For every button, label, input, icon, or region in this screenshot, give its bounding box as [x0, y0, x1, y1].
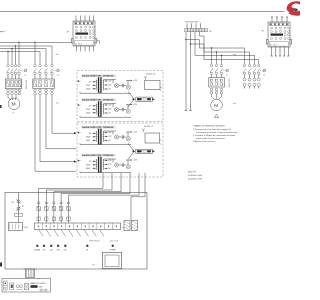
node junction right: [185, 39, 186, 40]
input subcircuit fuse F: [11, 193, 24, 223]
coil C2: [54, 70, 57, 72]
svg-text:SALIDA TRAFO TRF - TRF400/24: SALIDA TRAFO TRF - TRF400/24: [82, 126, 114, 129]
fuse block: [124, 221, 138, 231]
legend strip: [2, 279, 51, 293]
wires to motor M2: [212, 94, 222, 99]
contacts pair 2 group CB: [245, 75, 259, 78]
svg-text:230V: 230V: [86, 85, 91, 87]
svg-text:230V: 230V: [86, 137, 91, 139]
svg-text:M: M: [214, 103, 218, 108]
transformer row TRF3: [77, 126, 138, 145]
arrow into box2 row2: [74, 160, 77, 162]
svg-text:C2: C2: [57, 75, 59, 77]
svg-text:segun indica la placa de borne: segun indica la placa de bornes.: [196, 137, 226, 140]
svg-text:+: +: [121, 82, 122, 84]
wire drops group A: [212, 48, 222, 64]
display rect box2: [145, 133, 160, 143]
scan mark left edge: [0, 105, 2, 108]
svg-text:REG1: REG1: [24, 227, 29, 229]
scan mark left edge low: [0, 263, 2, 267]
wires to overload relay group2: [35, 75, 52, 79]
svg-text:230V: 230V: [86, 165, 91, 167]
wires to motor M1: [8, 95, 16, 100]
wires down from terminal strip: [186, 32, 191, 111]
arrow into box2 row1: [74, 132, 77, 134]
label MOTOR block: [188, 172, 202, 181]
connector arrows box: [128, 143, 155, 159]
svg-text:2.Consultar el bloque de conex: 2.Consultar el bloque de conexiones del …: [193, 134, 236, 137]
wires trafo outputs to control board: [39, 173, 139, 223]
wire group2 drop: [34, 42, 36, 64]
wire feed row2b to trafo box2: [35, 95, 76, 171]
svg-text:M: M: [12, 102, 16, 107]
connector arrows box: [128, 92, 155, 108]
contacts below relay F1: [7, 89, 21, 95]
wire stub CB1 right tab: [97, 41, 100, 44]
svg-text:SALIDA TRAFO TRF - TRF400/24: SALIDA TRAFO TRF - TRF400/24: [82, 99, 114, 102]
terminal strip: [185, 29, 213, 34]
svg-text:OFF: OFF: [57, 250, 60, 252]
transformer row TRF1: [77, 74, 138, 93]
svg-text:1.Desconectar el enchufe de la: 1.Desconectar el enchufe de la regleta d…: [193, 128, 232, 131]
svg-text:mm²: mm²: [233, 53, 237, 56]
svg-text:+: +: [121, 161, 122, 163]
svg-text:3.Ajustar el rele termico.: 3.Ajustar el rele termico.: [193, 140, 216, 143]
wire right bus B: [191, 44, 250, 64]
contactor C2 poles: [34, 64, 54, 74]
svg-text:+: +: [121, 133, 122, 135]
wire right bus D: [200, 36, 259, 64]
wire right bus C: [195, 40, 255, 64]
svg-text:F1: F1: [22, 206, 24, 208]
svg-text:mm²: mm²: [56, 102, 60, 105]
connector block CB1: [67, 16, 97, 52]
logo S (red) top-right: [287, 1, 300, 15]
svg-text:400V: 400V: [86, 113, 91, 115]
svg-text:mm²: mm²: [56, 53, 60, 56]
control board outline: [5, 193, 147, 270]
svg-text:C2: C2: [263, 75, 265, 77]
wires to overload relay group1: [8, 75, 19, 79]
svg-text:POWER: POWER: [110, 250, 117, 252]
relay contacts on drops: [37, 202, 70, 221]
wires to overload relay FA: [212, 75, 222, 78]
svg-text:mm²: mm²: [233, 102, 237, 105]
svg-text:EBLR-F02S: EBLR-F02S: [228, 79, 230, 89]
wire to fuse: [131, 173, 145, 221]
svg-text:400V: 400V: [86, 168, 91, 170]
motor M1: [8, 98, 20, 110]
coil C2 right: [260, 70, 262, 72]
wire feed row1a to trafo box2: [52, 95, 74, 133]
wire end ticks: [185, 110, 192, 112]
contactor C1 poles: [7, 64, 21, 74]
wire jumps below terminal bar: [39, 230, 104, 237]
wire bus N: [0, 51, 40, 64]
svg-text:人: 人: [12, 112, 14, 115]
contacts below relay F2: [34, 89, 54, 95]
label CAMBIO DE TENSION block: [193, 125, 238, 144]
LED labels: [35, 249, 117, 252]
svg-text:+: +: [121, 106, 122, 108]
display window: [103, 253, 122, 269]
svg-text:+USO TO A: +USO TO A: [109, 239, 119, 242]
svg-text:FUSE 5X20 B: FUSE 5X20 B: [89, 240, 100, 242]
transformer row TRF4: [77, 154, 138, 173]
LEDs row: [36, 245, 114, 247]
svg-text:DISYUNTOR/T—~: DISYUNTOR/T—~: [185, 21, 203, 23]
dashed enclosure box2: [77, 123, 163, 177]
contactor CB poles: [243, 64, 260, 74]
contactor CA poles: [210, 64, 223, 74]
contacts below relay FA: [210, 88, 223, 94]
svg-text:C1: C1: [226, 75, 228, 77]
coil C1 right: [223, 70, 226, 72]
node bus junction dots: [18, 42, 19, 43]
svg-text:400V: 400V: [86, 140, 91, 142]
transformer row TRF2: [77, 98, 138, 117]
svg-text:▮▮▮ 4P: ▮▮▮ 4P: [0, 30, 6, 33]
svg-text:MOTOR:: MOTOR:: [188, 172, 197, 174]
wire feed row2a to trafo box2: [40, 95, 74, 162]
terminal bar: [35, 223, 126, 230]
wire right bus A: [186, 40, 245, 64]
display rect box1: [145, 81, 161, 90]
wire top border line: [0, 11, 285, 13]
svg-text:EBLR-F02S: EBLR-F02S: [25, 80, 27, 90]
svg-text:AMARILLO-VERDE: AMARILLO-VERDE: [31, 282, 47, 285]
svg-text:SALIDA TRAFO TRF - TRF400/24: SALIDA TRAFO TRF - TRF400/24: [82, 154, 114, 157]
dashed enclosure box1: [77, 71, 163, 122]
svg-text:50-60Hz 10 kW: 50-60Hz 10 kW: [188, 175, 202, 177]
svg-text:0 1 2 3 4: 0 1 2 3 4: [75, 43, 82, 45]
motor M2 delta mark: [214, 114, 218, 118]
connector REG1: [9, 223, 29, 231]
svg-text:24-60Hz 12 kW: 24-60Hz 12 kW: [188, 179, 202, 181]
svg-text:C1: C1: [24, 75, 26, 77]
svg-text:400V: 400V: [86, 89, 91, 91]
svg-text:CAMBIO DE TENSION 230V/400V: CAMBIO DE TENSION 230V/400V: [193, 125, 225, 128]
overload relay FA: [209, 78, 225, 88]
wire bus L2: [0, 46, 52, 64]
overload relay F1: [5, 79, 22, 89]
terminal strip 4P pins: [187, 23, 201, 28]
wire feed row1b to trafo box2: [46, 95, 76, 149]
svg-text:24-002 L2: 24-002 L2: [144, 126, 154, 128]
motor M2: [211, 99, 223, 111]
svg-text:0 1 2 3 4: 0 1 2 3 4: [270, 44, 277, 46]
connector block CB2: [262, 17, 292, 57]
wire bus L1: [0, 41, 71, 43]
svg-text:230V: 230V: [86, 109, 91, 111]
svg-text:conexiones y conectar al puert: conexiones y conectar al puerto suminist…: [196, 131, 238, 134]
svg-text:CH-400 CL: CH-400 CL: [146, 74, 157, 76]
svg-text:SALIDA TRAFO TRF - TRF400/24: SALIDA TRAFO TRF - TRF400/24: [82, 75, 114, 78]
coil C1: [21, 70, 25, 72]
overload relay F2: [33, 79, 55, 89]
svg-text:OIL: OIL: [86, 250, 89, 252]
pedestal hatched: [24, 269, 37, 278]
wire bus L3: [0, 49, 46, 64]
wire group1 drops: [8, 42, 19, 64]
